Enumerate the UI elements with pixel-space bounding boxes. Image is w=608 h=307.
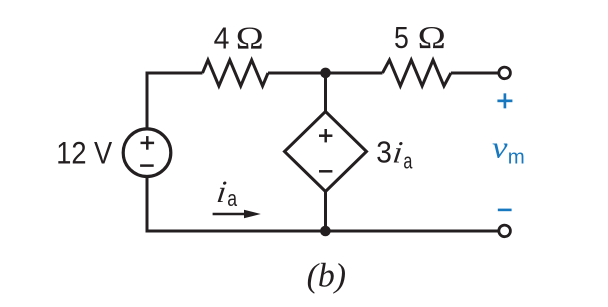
- resistor R2 5-ohm zigzag: [383, 60, 451, 86]
- minus sign of vm (blue): [498, 209, 512, 212]
- svg-text:m: m: [508, 146, 525, 169]
- wire from 4-ohm resistor to top junction: [268, 72, 326, 75]
- value label 5 ohm: [394, 20, 446, 55]
- svg-text:12 V: 12 V: [56, 136, 112, 171]
- node junction dot bottom: [320, 226, 331, 237]
- node label vm (blue): [492, 130, 525, 169]
- svg-text:v: v: [492, 130, 508, 165]
- wire left branch: source top to top-left corner to 4-ohm resistor: [147, 73, 203, 128]
- wire from top junction down to dependent source top: [324, 73, 327, 113]
- resistor R1 4-ohm zigzag: [203, 60, 269, 86]
- voltage source U1 12V circle: [123, 129, 171, 177]
- wire from dependent source bottom to bottom junction: [324, 191, 327, 232]
- dependent source minus sign: [319, 170, 332, 173]
- svg-text:Ω: Ω: [418, 20, 446, 55]
- svg-text:(b): (b): [307, 258, 347, 295]
- svg-text:a: a: [403, 148, 412, 173]
- wire from 5-ohm resistor to top terminal: [451, 72, 498, 75]
- terminal bottom-right open circle: [499, 225, 511, 237]
- wire from bottom junction to bottom terminal: [326, 230, 499, 233]
- terminal top-right open circle: [499, 67, 511, 79]
- svg-text:3: 3: [376, 135, 392, 170]
- svg-text:Ω: Ω: [236, 21, 264, 56]
- wire from top junction to 5-ohm resistor: [326, 72, 383, 75]
- current label ia: [215, 174, 238, 210]
- svg-text:a: a: [227, 186, 237, 211]
- value label 3ia: [376, 135, 413, 174]
- node junction dot top: [320, 68, 331, 79]
- svg-text:4: 4: [214, 21, 230, 56]
- voltage source plus sign: [141, 136, 155, 150]
- plus sign of vm (blue): [497, 93, 512, 108]
- dependent source plus sign: [319, 129, 332, 142]
- value label 4 ohm: [214, 21, 264, 56]
- dependent source U2 diamond: [285, 112, 367, 192]
- current arrow ia: [213, 210, 261, 218]
- wire from source bottom to bottom-left corner to bottom junction: [147, 178, 326, 231]
- svg-text:5: 5: [394, 20, 409, 55]
- voltage source minus sign: [140, 164, 154, 167]
